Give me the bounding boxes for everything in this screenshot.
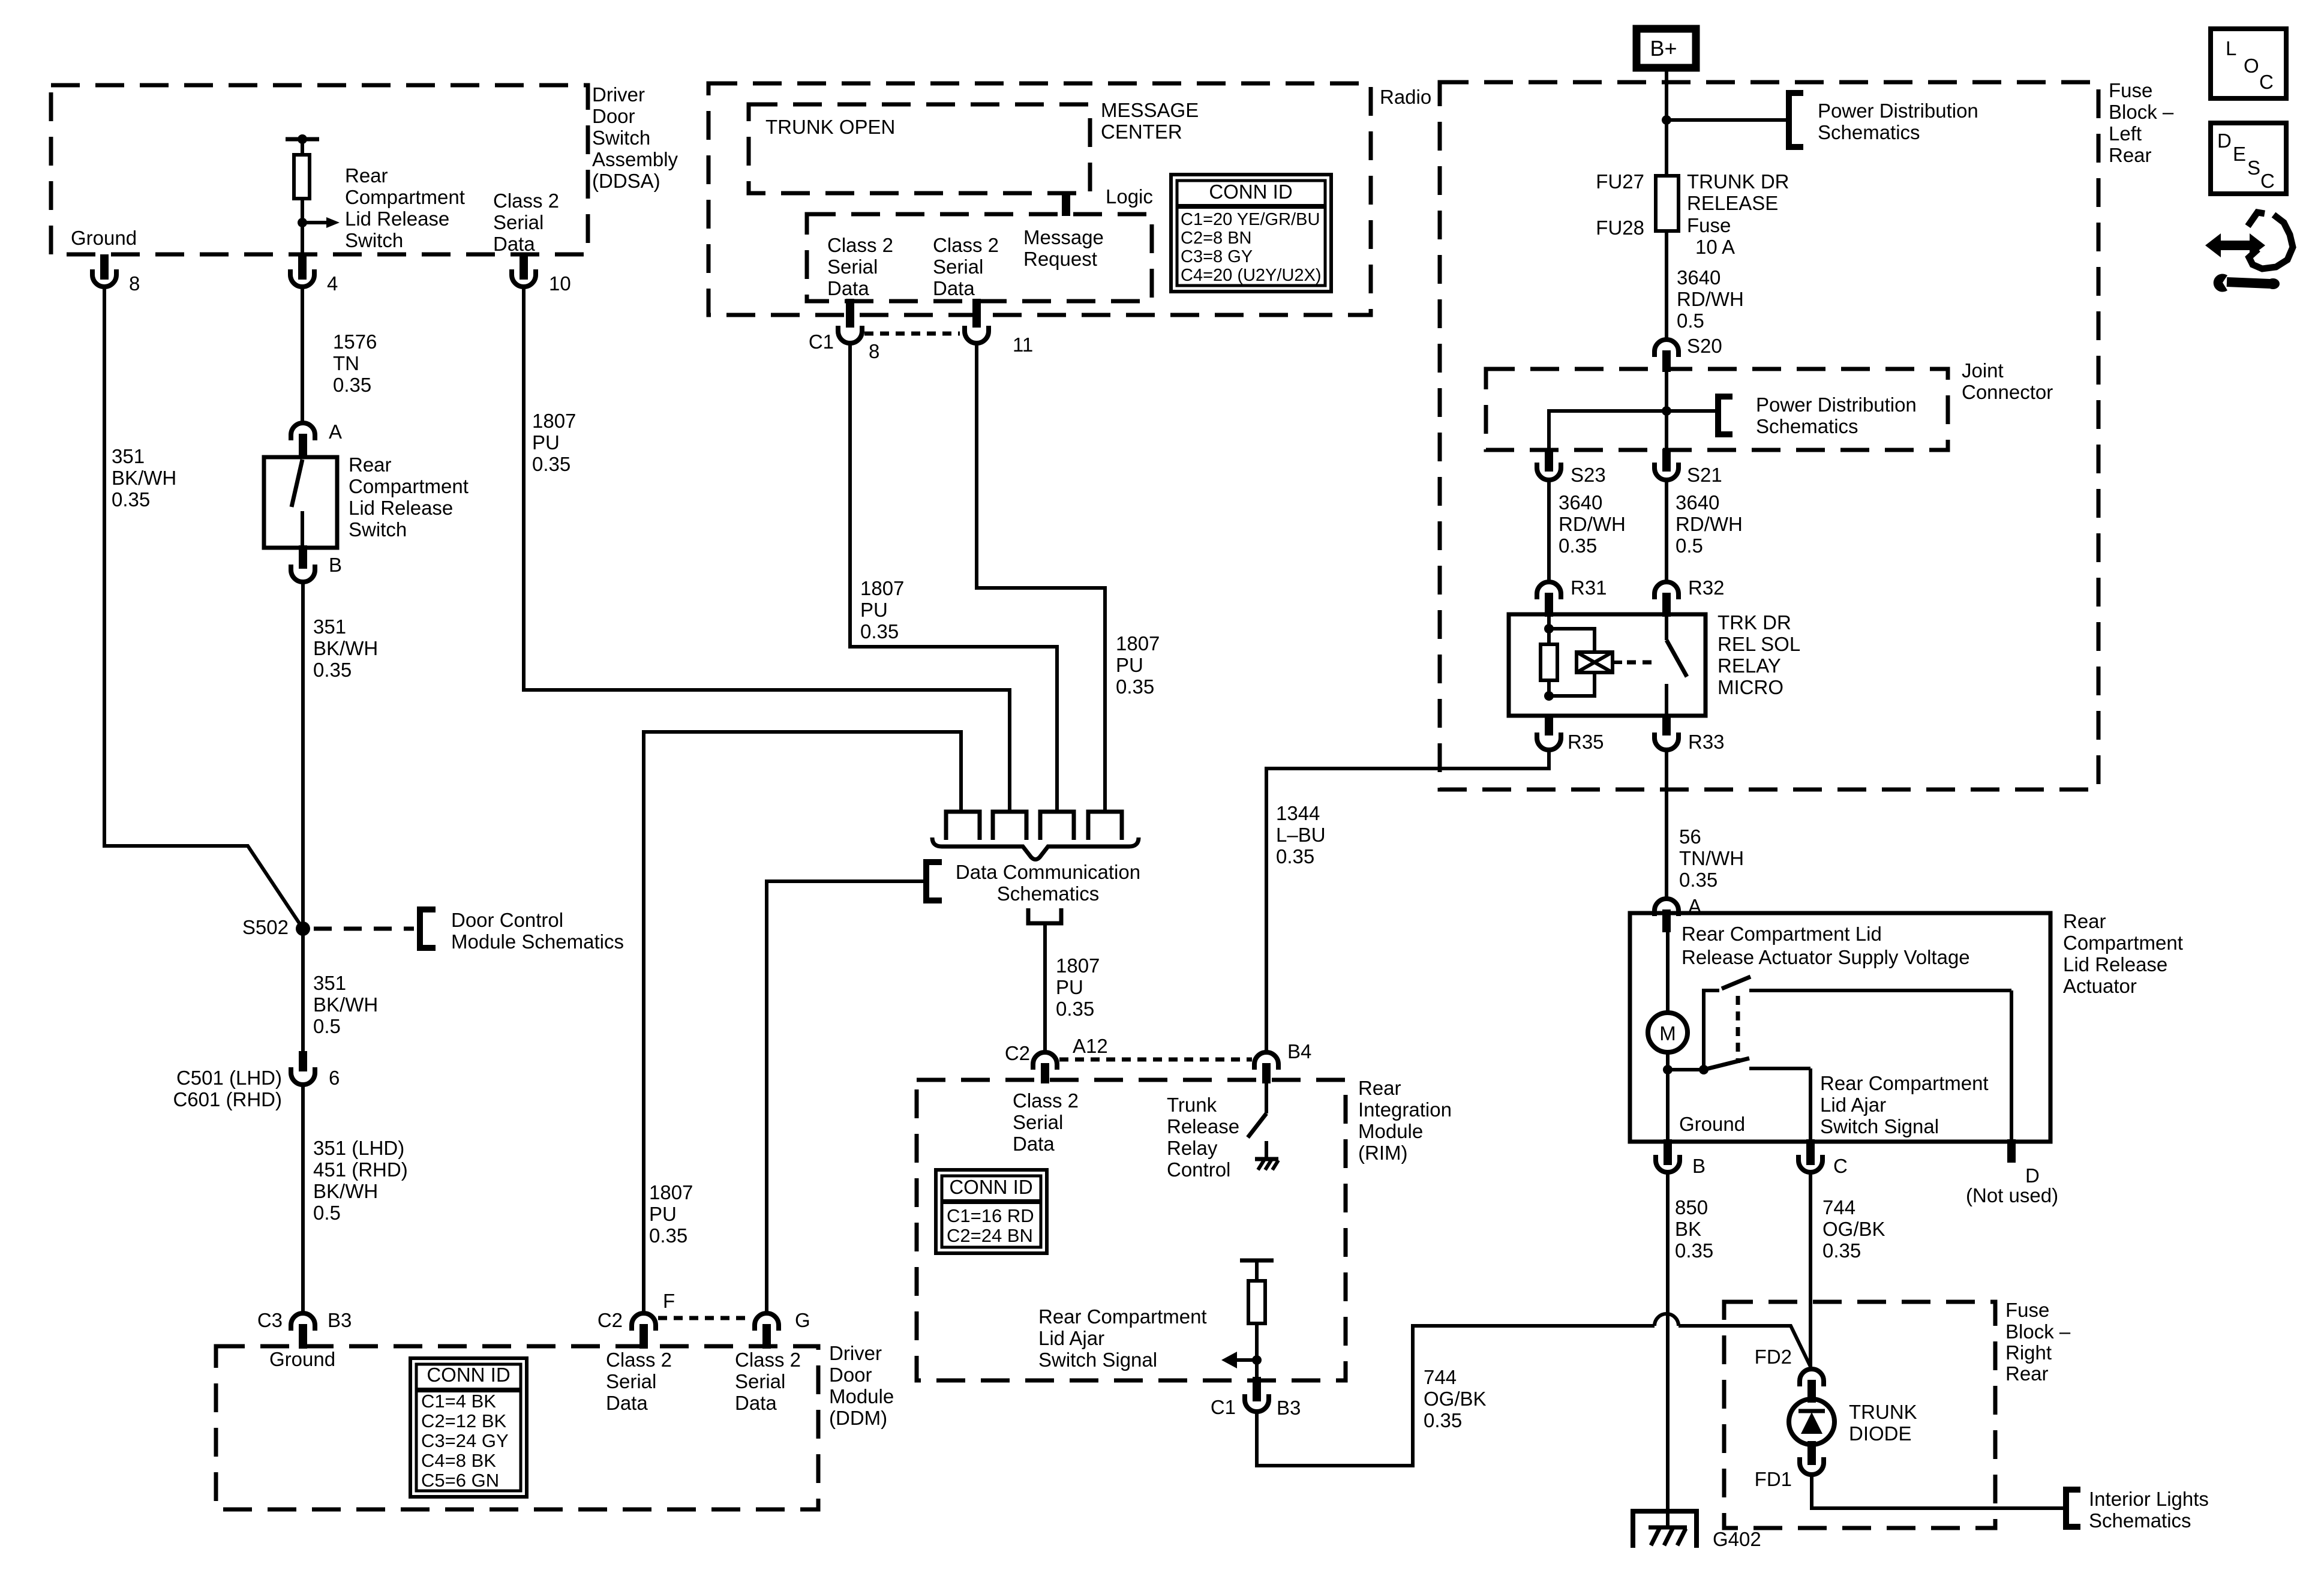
- svg-text:Lid Ajar: Lid Ajar: [1038, 1327, 1104, 1349]
- svg-text:D: D: [2217, 130, 2232, 152]
- svg-text:850: 850: [1675, 1196, 1708, 1218]
- svg-text:FD2: FD2: [1755, 1346, 1792, 1368]
- svg-text:Serial: Serial: [1013, 1111, 1063, 1133]
- svg-text:Schematics: Schematics: [2089, 1509, 2191, 1532]
- svg-text:C501 (LHD): C501 (LHD): [176, 1067, 282, 1089]
- svg-text:RD/WH: RD/WH: [1677, 288, 1744, 310]
- svg-text:Door: Door: [592, 105, 635, 127]
- svg-text:Class 2: Class 2: [606, 1349, 672, 1371]
- svg-text:Data: Data: [933, 277, 975, 299]
- svg-text:3640: 3640: [1559, 491, 1602, 514]
- svg-text:0.35: 0.35: [313, 659, 352, 681]
- svg-text:Switch: Switch: [345, 229, 403, 251]
- svg-text:Actuator: Actuator: [2063, 975, 2137, 997]
- svg-text:Right: Right: [2005, 1341, 2052, 1364]
- svg-text:Ground: Ground: [1679, 1113, 1745, 1135]
- svg-text:C3: C3: [257, 1309, 283, 1331]
- svg-text:351: 351: [313, 972, 346, 994]
- svg-text:Relay: Relay: [1167, 1137, 1218, 1159]
- svg-text:Schematics: Schematics: [997, 882, 1100, 905]
- svg-text:Rear: Rear: [2063, 910, 2106, 932]
- svg-text:Schematics: Schematics: [1818, 121, 1920, 143]
- svg-text:S502: S502: [242, 916, 289, 938]
- svg-text:TRUNK: TRUNK: [1849, 1401, 1917, 1423]
- svg-text:1807: 1807: [1116, 632, 1160, 655]
- svg-text:BK: BK: [1675, 1218, 1701, 1240]
- svg-text:11: 11: [1013, 334, 1033, 356]
- svg-text:0.35: 0.35: [1056, 998, 1094, 1020]
- svg-text:Ground: Ground: [71, 227, 137, 249]
- svg-text:Trunk: Trunk: [1167, 1094, 1217, 1116]
- svg-text:Rear: Rear: [2109, 144, 2152, 166]
- svg-text:R35: R35: [1568, 731, 1604, 753]
- svg-text:Serial: Serial: [606, 1370, 656, 1392]
- svg-text:PU: PU: [1116, 654, 1143, 676]
- svg-text:C4=20 (U2Y/U2X): C4=20 (U2Y/U2X): [1181, 266, 1322, 285]
- svg-text:0.35: 0.35: [1424, 1409, 1462, 1431]
- svg-text:TRUNK DR: TRUNK DR: [1687, 170, 1789, 193]
- svg-text:0.35: 0.35: [1276, 845, 1314, 867]
- svg-text:R31: R31: [1571, 577, 1607, 599]
- svg-text:Rear: Rear: [345, 164, 388, 187]
- svg-text:TN/WH: TN/WH: [1679, 847, 1744, 869]
- svg-text:B3: B3: [328, 1309, 352, 1331]
- svg-text:D: D: [2025, 1164, 2040, 1187]
- svg-text:TRUNK OPEN: TRUNK OPEN: [765, 116, 895, 138]
- svg-text:C: C: [2260, 170, 2275, 192]
- svg-text:0.35: 0.35: [1822, 1239, 1861, 1262]
- svg-text:C2=24 BN: C2=24 BN: [947, 1225, 1033, 1246]
- svg-text:Release: Release: [1167, 1115, 1239, 1137]
- svg-text:C5=6 GN: C5=6 GN: [421, 1470, 499, 1491]
- svg-text:56: 56: [1679, 825, 1701, 848]
- svg-text:MICRO: MICRO: [1718, 676, 1783, 698]
- svg-text:0.5: 0.5: [1676, 535, 1703, 557]
- svg-text:B+: B+: [1650, 36, 1677, 61]
- svg-text:Connector: Connector: [1962, 381, 2053, 403]
- svg-text:Lid Release: Lid Release: [2063, 953, 2167, 975]
- svg-text:Switch: Switch: [592, 127, 650, 149]
- svg-text:L: L: [2226, 37, 2236, 59]
- svg-text:PU: PU: [1056, 976, 1083, 998]
- svg-text:OG/BK: OG/BK: [1822, 1218, 1885, 1240]
- svg-text:Lid Release: Lid Release: [349, 497, 453, 519]
- svg-text:8: 8: [129, 272, 140, 295]
- svg-text:0.35: 0.35: [860, 620, 899, 643]
- svg-text:C3=24 GY: C3=24 GY: [421, 1430, 509, 1451]
- svg-text:C4=8 BK: C4=8 BK: [421, 1450, 496, 1471]
- svg-text:O: O: [2244, 55, 2259, 77]
- svg-text:TN: TN: [333, 352, 359, 374]
- svg-text:Compartment: Compartment: [2063, 932, 2183, 954]
- svg-text:Block –: Block –: [2109, 101, 2174, 123]
- svg-text:Rear Compartment: Rear Compartment: [1038, 1305, 1207, 1328]
- svg-text:Door: Door: [829, 1364, 872, 1386]
- svg-text:Power Distribution: Power Distribution: [1818, 100, 1978, 122]
- svg-text:PU: PU: [649, 1203, 677, 1225]
- svg-text:C3=8 GY: C3=8 GY: [1181, 247, 1253, 266]
- svg-text:351: 351: [112, 445, 145, 467]
- svg-text:Door Control: Door Control: [451, 909, 563, 931]
- svg-text:Schematics: Schematics: [1756, 415, 1858, 437]
- svg-text:F: F: [663, 1290, 675, 1312]
- svg-text:Data: Data: [493, 233, 535, 255]
- svg-text:E: E: [2233, 143, 2246, 165]
- svg-text:MESSAGE: MESSAGE: [1101, 99, 1199, 121]
- svg-text:Lid Ajar: Lid Ajar: [1820, 1094, 1886, 1116]
- svg-text:S: S: [2247, 157, 2260, 179]
- svg-text:Rear Compartment Lid: Rear Compartment Lid: [1682, 923, 1882, 945]
- svg-text:Logic: Logic: [1106, 185, 1153, 208]
- svg-text:Switch Signal: Switch Signal: [1038, 1349, 1157, 1371]
- svg-text:451 (RHD): 451 (RHD): [313, 1158, 408, 1181]
- svg-text:0.35: 0.35: [1675, 1239, 1713, 1262]
- svg-text:B: B: [1692, 1155, 1706, 1177]
- svg-text:BK/WH: BK/WH: [313, 993, 378, 1016]
- svg-text:DIODE: DIODE: [1849, 1422, 1912, 1445]
- svg-text:4: 4: [327, 272, 338, 295]
- svg-text:Compartment: Compartment: [349, 475, 469, 497]
- svg-text:Rear: Rear: [2005, 1362, 2049, 1385]
- svg-text:BK/WH: BK/WH: [112, 467, 176, 489]
- svg-text:0.35: 0.35: [333, 374, 371, 396]
- svg-text:G: G: [795, 1309, 810, 1331]
- svg-text:Data Communication: Data Communication: [956, 861, 1140, 883]
- svg-text:OG/BK: OG/BK: [1424, 1388, 1487, 1410]
- svg-text:744: 744: [1822, 1196, 1855, 1218]
- svg-text:C1=16 RD: C1=16 RD: [947, 1205, 1034, 1226]
- svg-text:(RIM): (RIM): [1358, 1142, 1407, 1164]
- svg-text:C2: C2: [597, 1309, 623, 1331]
- svg-text:C2=12 BK: C2=12 BK: [421, 1410, 507, 1431]
- svg-text:R33: R33: [1688, 731, 1725, 753]
- svg-text:3640: 3640: [1676, 491, 1719, 514]
- svg-text:0.35: 0.35: [1559, 535, 1597, 557]
- svg-text:RD/WH: RD/WH: [1559, 513, 1626, 535]
- svg-text:Switch: Switch: [349, 518, 407, 541]
- svg-text:(DDSA): (DDSA): [592, 170, 660, 192]
- svg-text:351: 351: [313, 616, 346, 638]
- svg-text:Compartment: Compartment: [345, 186, 465, 208]
- svg-text:CONN ID: CONN ID: [1209, 181, 1292, 203]
- svg-text:0.5: 0.5: [313, 1202, 341, 1224]
- svg-text:0.35: 0.35: [532, 453, 571, 475]
- svg-text:B4: B4: [1287, 1040, 1311, 1062]
- svg-text:C1=4 BK: C1=4 BK: [421, 1391, 496, 1412]
- svg-text:Class 2: Class 2: [735, 1349, 801, 1371]
- svg-text:8: 8: [869, 340, 879, 362]
- svg-text:351 (LHD): 351 (LHD): [313, 1137, 404, 1159]
- svg-text:G402: G402: [1713, 1528, 1761, 1550]
- svg-text:CONN ID: CONN ID: [427, 1364, 510, 1386]
- svg-text:C2: C2: [1005, 1042, 1030, 1064]
- svg-text:FU27: FU27: [1596, 170, 1644, 193]
- svg-text:Rear Compartment: Rear Compartment: [1820, 1072, 1989, 1094]
- svg-text:Driver: Driver: [829, 1342, 882, 1364]
- svg-text:S20: S20: [1687, 335, 1722, 357]
- svg-text:Assembly: Assembly: [592, 148, 678, 170]
- svg-text:1576: 1576: [333, 331, 377, 353]
- svg-text:0.35: 0.35: [112, 488, 150, 511]
- svg-text:Driver: Driver: [592, 83, 645, 106]
- svg-text:RD/WH: RD/WH: [1676, 513, 1743, 535]
- svg-text:Joint: Joint: [1962, 359, 2004, 382]
- svg-text:Integration: Integration: [1358, 1098, 1452, 1121]
- svg-text:Class 2: Class 2: [493, 190, 559, 212]
- svg-text:C1: C1: [1211, 1396, 1236, 1418]
- svg-text:S23: S23: [1571, 464, 1606, 486]
- svg-text:Serial: Serial: [735, 1370, 785, 1392]
- svg-text:Rear: Rear: [349, 454, 392, 476]
- svg-text:Lid Release: Lid Release: [345, 208, 449, 230]
- svg-text:Serial: Serial: [827, 256, 878, 278]
- svg-text:Control: Control: [1167, 1158, 1230, 1181]
- svg-text:(DDM): (DDM): [829, 1407, 887, 1429]
- svg-text:Class 2: Class 2: [827, 234, 893, 256]
- svg-text:Rear: Rear: [1358, 1077, 1401, 1099]
- svg-text:Fuse: Fuse: [2109, 79, 2152, 101]
- svg-text:0.5: 0.5: [1677, 310, 1704, 332]
- svg-text:RELAY: RELAY: [1718, 655, 1781, 677]
- svg-text:Module Schematics: Module Schematics: [451, 930, 624, 953]
- svg-text:C1: C1: [809, 331, 834, 353]
- svg-text:Switch Signal: Switch Signal: [1820, 1115, 1939, 1137]
- svg-text:Left: Left: [2109, 122, 2142, 145]
- svg-text:1807: 1807: [532, 410, 576, 432]
- svg-text:Interior Lights: Interior Lights: [2089, 1488, 2209, 1510]
- svg-text:6: 6: [329, 1067, 340, 1089]
- svg-text:A: A: [329, 421, 342, 443]
- svg-text:Block –: Block –: [2005, 1320, 2071, 1343]
- svg-text:Module: Module: [829, 1385, 894, 1407]
- svg-text:M: M: [1659, 1022, 1676, 1044]
- svg-text:Fuse: Fuse: [2005, 1299, 2049, 1321]
- svg-text:B: B: [329, 554, 342, 576]
- svg-text:PU: PU: [532, 431, 560, 454]
- svg-text:Class 2: Class 2: [933, 234, 999, 256]
- svg-text:Data: Data: [606, 1392, 648, 1414]
- svg-text:CENTER: CENTER: [1101, 121, 1182, 143]
- svg-text:C: C: [2259, 71, 2274, 93]
- svg-text:RELEASE: RELEASE: [1687, 192, 1778, 214]
- svg-text:1807: 1807: [649, 1181, 693, 1203]
- svg-text:Fuse: Fuse: [1687, 214, 1731, 236]
- svg-text:Ground: Ground: [269, 1348, 335, 1370]
- svg-text:C: C: [1833, 1155, 1848, 1177]
- svg-text:C1=20 YE/GR/BU: C1=20 YE/GR/BU: [1181, 210, 1320, 229]
- svg-text:R32: R32: [1688, 577, 1725, 599]
- svg-text:Class 2: Class 2: [1013, 1089, 1079, 1112]
- svg-text:0.35: 0.35: [1116, 676, 1154, 698]
- svg-text:PU: PU: [860, 599, 888, 621]
- svg-text:FU28: FU28: [1596, 217, 1644, 239]
- svg-text:Data: Data: [735, 1392, 777, 1414]
- svg-text:Message: Message: [1023, 226, 1104, 248]
- svg-text:Request: Request: [1023, 248, 1097, 270]
- svg-text:Release Actuator Supply Voltag: Release Actuator Supply Voltage: [1682, 946, 1970, 968]
- svg-text:Radio: Radio: [1380, 86, 1431, 108]
- svg-text:Data: Data: [1013, 1133, 1055, 1155]
- svg-text:C2=8 BN: C2=8 BN: [1181, 229, 1251, 248]
- svg-text:744: 744: [1424, 1366, 1457, 1388]
- svg-text:S21: S21: [1687, 464, 1722, 486]
- svg-text:1807: 1807: [860, 577, 904, 599]
- svg-text:Module: Module: [1358, 1120, 1423, 1142]
- svg-text:BK/WH: BK/WH: [313, 1180, 378, 1202]
- svg-text:0.5: 0.5: [313, 1015, 341, 1037]
- svg-text:BK/WH: BK/WH: [313, 637, 378, 659]
- svg-text:A12: A12: [1073, 1035, 1108, 1057]
- svg-text:C601 (RHD): C601 (RHD): [173, 1088, 282, 1110]
- svg-text:1344: 1344: [1276, 802, 1320, 824]
- svg-text:FD1: FD1: [1755, 1468, 1792, 1490]
- svg-text:1807: 1807: [1056, 954, 1100, 977]
- svg-text:TRK DR: TRK DR: [1718, 611, 1791, 634]
- svg-text:Serial: Serial: [493, 211, 544, 233]
- svg-text:3640: 3640: [1677, 266, 1721, 289]
- svg-text:CONN ID: CONN ID: [949, 1176, 1032, 1198]
- svg-text:(Not used): (Not used): [1966, 1184, 2058, 1206]
- svg-text:Power Distribution: Power Distribution: [1756, 394, 1917, 416]
- svg-text:0.35: 0.35: [649, 1224, 687, 1247]
- svg-text:REL SOL: REL SOL: [1718, 633, 1800, 655]
- svg-text:0.35: 0.35: [1679, 869, 1718, 891]
- svg-text:L–BU: L–BU: [1276, 824, 1326, 846]
- svg-text:Data: Data: [827, 277, 869, 299]
- svg-text:10 A: 10 A: [1695, 236, 1735, 258]
- svg-text:Serial: Serial: [933, 256, 983, 278]
- svg-text:10: 10: [549, 272, 571, 295]
- svg-text:B3: B3: [1277, 1397, 1301, 1419]
